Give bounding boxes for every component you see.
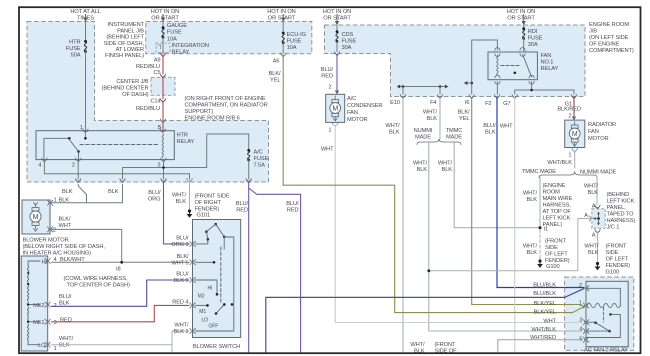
svg-text:BLU/BLK: BLU/BLK xyxy=(533,283,556,289)
svg-text:HI: HI xyxy=(208,286,213,292)
svg-text:WHT/BLK: WHT/BLK xyxy=(531,327,556,333)
svg-text:MADE: MADE xyxy=(446,135,462,141)
svg-text:OF RIGHT: OF RIGHT xyxy=(195,200,222,206)
pin 1 HTR relay xyxy=(80,125,88,133)
wire WHT/BLK E10 down to bottom xyxy=(385,98,403,352)
wire BLK/WHT blower motor pin 2 to I8 xyxy=(52,229,122,262)
fan no.1 relay box xyxy=(488,52,537,80)
svg-text:RED: RED xyxy=(236,208,248,214)
svg-text:BLK: BLK xyxy=(108,189,119,195)
wire gauge fuse through integration relay xyxy=(162,37,164,54)
pin 2 blower motor xyxy=(48,217,72,234)
svg-text:(BEHIND LEFT: (BEHIND LEFT xyxy=(106,35,144,41)
fuse A/C FUSE 7.5A xyxy=(247,149,268,169)
node I1 xyxy=(539,226,549,232)
svg-text:PANEL J/B: PANEL J/B xyxy=(117,28,144,34)
label NUMMI MADE / TMMC MADE (F4 split) xyxy=(414,128,463,141)
label CENTER J/B xyxy=(102,79,149,98)
svg-text:SUPPORT): SUPPORT) xyxy=(185,109,214,115)
radiator fan motor box xyxy=(565,120,585,147)
label J/C 1 xyxy=(607,192,636,231)
svg-text:RDI: RDI xyxy=(528,29,538,35)
wire WHT/RED to AC fan 2 relay pin 5 xyxy=(498,340,582,352)
wire CDS fuse to connector xyxy=(336,41,338,51)
svg-text:RED/BLU: RED/BLU xyxy=(136,106,160,112)
svg-text:PANEL,: PANEL, xyxy=(607,205,627,211)
pin 3 AC fan 2 relay xyxy=(579,318,588,325)
pin E10 connector xyxy=(390,95,405,106)
wire BLU/BLK resistor ME2 to switch pin 6 xyxy=(52,280,190,306)
wire WHT/BLK J/C 1 left to NUMMI branch junction xyxy=(429,219,590,271)
svg-text:SIDE: SIDE xyxy=(606,250,619,256)
pin 4 blower switch xyxy=(172,300,195,308)
wire RED/BLU C14 to R/B 6 xyxy=(136,102,163,120)
svg-text:(ENGINE: (ENGINE xyxy=(543,183,566,189)
label BLU/BLK wires at relay xyxy=(533,283,556,298)
svg-text:2: 2 xyxy=(568,114,571,120)
wire WHT/BLK TMMC to I1 xyxy=(523,177,540,227)
pin CDS output connector xyxy=(334,52,339,56)
pin 2 blower resistor ME2 xyxy=(45,294,72,309)
pin A6 connector xyxy=(273,53,286,65)
pin 1 blower switch xyxy=(174,323,196,336)
svg-text:OR START: OR START xyxy=(151,16,179,22)
pin 1 AC fan 2 relay xyxy=(579,301,589,309)
svg-text:1: 1 xyxy=(579,301,582,307)
wire HTR relay pin 3 to connector xyxy=(163,161,165,179)
relay FAN NO.1 RELAY internals xyxy=(497,53,559,77)
svg-text:MAIN WIRE: MAIN WIRE xyxy=(543,196,573,202)
svg-text:FAN: FAN xyxy=(347,110,358,116)
svg-text:BLK: BLK xyxy=(485,130,496,136)
node HOT IN ON OR START (CDS fuse) xyxy=(323,9,352,25)
motor radiator fan M3 symbol xyxy=(569,122,580,147)
svg-text:YEL: YEL xyxy=(270,78,280,84)
svg-text:WHT/: WHT/ xyxy=(438,161,453,167)
ground G100 left xyxy=(537,239,570,271)
svg-text:(FRONT: (FRONT xyxy=(606,244,628,250)
svg-text:BLK 6: BLK 6 xyxy=(174,278,189,284)
label TMMC MADE / NUMMI MADE (radiator fan split) xyxy=(522,169,617,176)
svg-text:WHT/: WHT/ xyxy=(523,244,538,250)
motor A/C condenser fan M2 symbol xyxy=(330,96,341,121)
svg-text:M: M xyxy=(33,214,39,221)
pin fan no.1 relay bottom-left xyxy=(495,75,500,84)
svg-text:INTEGRATION: INTEGRATION xyxy=(172,43,209,49)
svg-text:COMPARTMENT): COMPARTMENT) xyxy=(589,48,634,54)
svg-text:SIDE OF DASH,: SIDE OF DASH, xyxy=(104,41,145,47)
svg-text:WHT/: WHT/ xyxy=(413,161,428,167)
pin fan no.1 relay top-left xyxy=(495,48,500,57)
svg-text:TOP CENTER OF DASH): TOP CENTER OF DASH) xyxy=(67,283,131,289)
wire WHT/BLK resistor LO to bottom xyxy=(52,331,173,352)
svg-text:3: 3 xyxy=(54,320,57,326)
wire BLU/RED branch right xyxy=(249,188,301,352)
svg-text:A9: A9 xyxy=(154,58,161,64)
svg-text:30A: 30A xyxy=(342,45,352,51)
svg-text:BLK/: BLK/ xyxy=(59,217,71,223)
label A/C CONDENSER FAN MOTOR xyxy=(347,96,382,123)
svg-text:ROOM: ROOM xyxy=(543,190,561,196)
wire ECU-IG fuse feed xyxy=(282,22,284,33)
svg-text:RELAY: RELAY xyxy=(177,139,195,145)
wire BLK/RED G1 to radiator fan xyxy=(557,98,581,120)
svg-text:G7: G7 xyxy=(503,101,510,107)
svg-text:(BELOW RIGHT SIDE OF DASH,: (BELOW RIGHT SIDE OF DASH, xyxy=(23,244,106,250)
svg-text:WHT: WHT xyxy=(321,147,334,153)
brace radiator fan harness split xyxy=(539,172,597,178)
svg-text:BLU/: BLU/ xyxy=(59,294,72,300)
HTR relay box xyxy=(36,131,174,160)
integration relay pin mark xyxy=(158,45,161,49)
svg-text:BLK/: BLK/ xyxy=(177,254,189,260)
svg-text:SIDE OF: SIDE OF xyxy=(435,349,458,355)
svg-text:COMPARTMENT, ON RADIATOR: COMPARTMENT, ON RADIATOR xyxy=(185,103,268,109)
svg-text:HOT IN ON: HOT IN ON xyxy=(151,9,179,15)
svg-text:BLK: BLK xyxy=(417,167,428,173)
svg-text:10A: 10A xyxy=(167,37,177,43)
svg-text:10A: 10A xyxy=(287,45,297,51)
junction dot relay to G7/G1 xyxy=(530,89,533,92)
svg-text:BLU/: BLU/ xyxy=(176,272,189,278)
svg-text:RADIATOR: RADIATOR xyxy=(588,122,616,128)
pin BLU/RED connector xyxy=(236,179,252,214)
wire WHT/BLK J/C 1 to ground right xyxy=(584,233,599,262)
AC fan 2 relay outer box (dashed, blue) xyxy=(565,277,634,350)
wire BLK connectors to blower motor pin 1 xyxy=(52,185,123,203)
wire BLK/YEL A6 route to AC fan 2 relay pin 1 xyxy=(283,185,584,312)
wire RED/BLU A9 to C5 xyxy=(136,57,163,75)
pin 1 blower motor xyxy=(48,198,70,206)
svg-text:ORG: ORG xyxy=(148,197,161,203)
svg-text:ME2: ME2 xyxy=(33,303,44,309)
node HOT IN ON OR START (gauge fuse) xyxy=(151,9,180,22)
motor blower M1 symbol xyxy=(30,203,41,232)
wire WHT/BLK TMMC branch to I1 xyxy=(438,143,540,228)
svg-text:TMMC: TMMC xyxy=(446,128,463,134)
svg-text:50A: 50A xyxy=(71,53,81,59)
wire BLU/RED to bottom xyxy=(248,182,250,352)
wire WHT/BLK I1 to ground (dashed) xyxy=(523,230,540,259)
pin 4 blower resistor HI xyxy=(45,257,85,264)
svg-text:(COWL WIRE HARNESS,: (COWL WIRE HARNESS, xyxy=(64,276,128,282)
svg-text:SIDE: SIDE xyxy=(545,245,558,251)
svg-text:J/B: J/B xyxy=(589,29,597,35)
pin 5 connector into R/B 6 xyxy=(158,119,166,131)
svg-text:LO: LO xyxy=(38,343,46,349)
pin 5 AC fan 2 relay xyxy=(579,337,588,343)
svg-text:HARNESS,: HARNESS, xyxy=(543,203,572,209)
svg-text:4: 4 xyxy=(38,163,41,169)
pin G1 connector xyxy=(565,95,577,108)
svg-text:FUSE: FUSE xyxy=(167,30,182,36)
svg-text:OF LEFT: OF LEFT xyxy=(545,252,568,258)
svg-text:WHT: WHT xyxy=(500,124,513,130)
fuse GAUGE FUSE 10A xyxy=(162,23,188,43)
svg-text:BLK: BLK xyxy=(588,190,599,196)
svg-text:2: 2 xyxy=(53,228,56,234)
svg-text:GAUGE: GAUGE xyxy=(167,23,187,29)
svg-text:YEL: YEL xyxy=(459,116,469,122)
svg-text:BLK: BLK xyxy=(527,197,538,203)
svg-text:BLU/: BLU/ xyxy=(176,236,189,242)
svg-text:7.5A: 7.5A xyxy=(254,163,266,169)
svg-text:A6: A6 xyxy=(273,59,280,65)
wire WHT/BLK to ground G101 xyxy=(189,182,191,209)
junction I6 branch arrow xyxy=(464,81,473,85)
svg-text:M: M xyxy=(332,106,338,113)
svg-text:FUSE: FUSE xyxy=(287,39,302,45)
pin G7 connector xyxy=(503,95,517,107)
brace F4 harness split xyxy=(417,139,461,145)
svg-text:J/C 1: J/C 1 xyxy=(607,225,620,231)
svg-text:BLK: BLK xyxy=(62,189,73,195)
svg-text:LEFT KICK: LEFT KICK xyxy=(543,216,571,222)
svg-text:INSTRUMENT: INSTRUMENT xyxy=(108,22,145,28)
junction dot NUMMI branch xyxy=(427,269,430,272)
svg-text:3: 3 xyxy=(579,318,582,324)
svg-text:2: 2 xyxy=(72,163,75,169)
svg-text:I6: I6 xyxy=(465,100,470,106)
svg-text:BLK/: BLK/ xyxy=(269,71,281,77)
svg-text:FUSE: FUSE xyxy=(342,39,357,45)
wire RDI fuse to fan no.1 relay xyxy=(523,39,525,53)
svg-text:TAPED TO: TAPED TO xyxy=(607,212,635,218)
svg-text:RELAY: RELAY xyxy=(172,50,190,56)
svg-text:5: 5 xyxy=(579,337,582,343)
svg-text:LEFT KICK: LEFT KICK xyxy=(607,199,635,205)
svg-text:ENGINE ROOM: ENGINE ROOM xyxy=(589,22,629,28)
svg-text:2: 2 xyxy=(328,85,331,91)
svg-text:WHT/BLK: WHT/BLK xyxy=(547,160,572,166)
svg-text:WHT: WHT xyxy=(543,318,556,324)
wire WHT G7 down to bottom xyxy=(500,98,515,352)
pin F4 connector xyxy=(430,95,443,106)
svg-text:BLK/YEL: BLK/YEL xyxy=(534,301,556,307)
svg-text:MADE: MADE xyxy=(415,135,431,141)
svg-text:FAN: FAN xyxy=(588,129,599,135)
svg-text:F2: F2 xyxy=(485,101,491,107)
svg-text:M: M xyxy=(572,131,578,138)
fuse RDI FUSE 30A xyxy=(522,27,542,48)
svg-text:FUSE: FUSE xyxy=(66,46,81,52)
svg-text:BLU/: BLU/ xyxy=(236,201,249,207)
svg-text:(FRONT: (FRONT xyxy=(435,342,457,348)
svg-text:OR START: OR START xyxy=(507,16,535,22)
wire BLU/BLK F2 to AC fan 2 relay pin 2 xyxy=(483,98,584,288)
label BLOWER MOTOR xyxy=(23,238,106,257)
label RADIATOR FAN MOTOR xyxy=(588,122,616,142)
wire RDI fuse feed xyxy=(523,25,525,29)
pin 1 condenser fan connector xyxy=(328,123,337,134)
svg-text:RED: RED xyxy=(287,208,299,214)
svg-text:F4: F4 xyxy=(430,100,436,106)
svg-text:HOT IN ON: HOT IN ON xyxy=(267,9,295,15)
svg-text:OF DASH): OF DASH) xyxy=(122,92,149,98)
svg-text:HOT IN ON: HOT IN ON xyxy=(507,9,535,15)
wire WHT/BLK NUMMI to J/C 1 xyxy=(584,177,599,205)
svg-text:RELAY: RELAY xyxy=(541,66,559,72)
wire BLU/BLK lower to AC fan 2 relay pin 2 xyxy=(266,289,584,352)
junction I8 xyxy=(116,261,123,273)
label ENGINE ROOM J/B xyxy=(589,22,634,54)
wire BLK/YEL A6 down xyxy=(269,56,284,185)
pin I6 connector xyxy=(465,95,474,106)
svg-text:(ON LEFT SIDE: (ON LEFT SIDE xyxy=(589,35,629,41)
pin C5 connector xyxy=(153,70,165,78)
svg-text:I8: I8 xyxy=(116,267,121,273)
wire HTR fuse to HTR relay pin 1 xyxy=(85,52,87,131)
blower resistor box xyxy=(21,256,48,351)
svg-text:M2: M2 xyxy=(198,294,205,300)
svg-text:AT TOP OF: AT TOP OF xyxy=(543,209,572,215)
svg-text:A/C: A/C xyxy=(254,150,263,156)
switch blower switch internals xyxy=(195,223,234,331)
svg-text:WHT/: WHT/ xyxy=(410,342,425,348)
wire BLK/YEL I6 to AC fan 2 relay pin 1 xyxy=(458,98,584,306)
svg-text:BLK: BLK xyxy=(527,250,538,256)
svg-text:BLK: BLK xyxy=(588,250,599,256)
svg-text:E10: E10 xyxy=(390,100,400,106)
svg-text:1: 1 xyxy=(80,125,83,131)
svg-text:5: 5 xyxy=(158,125,161,131)
svg-text:CENTER J/B: CENTER J/B xyxy=(116,79,148,85)
pin fan no.1 relay bottom-right xyxy=(529,75,534,84)
A/C condenser fan motor box xyxy=(326,94,345,122)
svg-text:BLOWER MOTOR: BLOWER MOTOR xyxy=(23,238,69,244)
node HOT AT ALL TIMES xyxy=(70,9,100,22)
relay AC FAN 2 RELAY internals xyxy=(587,288,621,337)
wire WHT/BLK switch pin 1 xyxy=(172,330,189,332)
blower motor box xyxy=(22,200,50,234)
svg-text:MOTOR: MOTOR xyxy=(347,117,368,123)
fuse HTR FUSE 50A xyxy=(66,40,87,59)
svg-text:C14: C14 xyxy=(150,99,160,105)
wire J/B internal bus E10-F4 xyxy=(397,85,449,95)
pin C14 connector xyxy=(150,99,165,105)
svg-text:FUSE: FUSE xyxy=(528,36,543,42)
integration relay box (dashed) xyxy=(156,43,170,52)
svg-text:WHT/: WHT/ xyxy=(385,123,400,129)
svg-text:AT LOWER: AT LOWER xyxy=(116,47,144,53)
label COWL WIRE HARNESS xyxy=(64,276,131,289)
node HOT IN ON OR START (ECU-IG) xyxy=(267,9,296,22)
svg-text:ECU-IG: ECU-IG xyxy=(287,32,306,38)
svg-text:ENGINE ROOM R/B 6: ENGINE ROOM R/B 6 xyxy=(185,116,240,122)
wire RED/BLU to HTR relay pin 5 xyxy=(162,122,164,131)
svg-text:A/C: A/C xyxy=(347,96,356,102)
svg-text:G100: G100 xyxy=(606,270,620,276)
resistor blower resistor internals xyxy=(27,259,48,349)
pin 6 blower switch xyxy=(174,272,196,285)
pin 5 blower switch xyxy=(171,254,195,267)
label BLK/YEL wires at relay xyxy=(534,301,556,316)
wire BLU/ORG to blower switch pin 3 xyxy=(164,182,190,244)
svg-text:IN HEATER A/C HOUSING): IN HEATER A/C HOUSING) xyxy=(23,251,92,257)
wire BLK/WHT resistor HI to blower switch pin 5 xyxy=(52,261,190,263)
svg-text:FUSE: FUSE xyxy=(254,156,269,162)
pin A9 connector xyxy=(154,53,166,64)
svg-text:BLK: BLK xyxy=(59,343,70,349)
fuse ECU-IG FUSE 10A xyxy=(282,32,306,51)
wire WHT/BLK F4 stub xyxy=(423,98,440,139)
svg-text:FAN: FAN xyxy=(541,53,552,59)
wire WHT/BLK NUMMI branch to AC fan 2 relay pin 4 xyxy=(413,143,582,332)
pin 1 radiator fan connector xyxy=(568,149,577,159)
svg-text:AC FAN 2 RELAY: AC FAN 2 RELAY xyxy=(584,348,628,354)
svg-text:A: A xyxy=(592,204,596,210)
svg-text:TMMC MADE: TMMC MADE xyxy=(522,169,556,175)
wire HTR fuse feed xyxy=(85,22,87,41)
wire ECU-IG fuse to A6 xyxy=(282,43,284,53)
label engine room main wire harness xyxy=(543,183,573,228)
svg-text:BLK: BLK xyxy=(442,167,453,173)
pin BLU/ORG connector xyxy=(148,179,166,203)
svg-text:BLK: BLK xyxy=(389,130,400,136)
svg-text:ORG 3: ORG 3 xyxy=(171,242,188,248)
wire relay coil feed to I6 xyxy=(472,40,498,94)
svg-text:ME1: ME1 xyxy=(33,320,44,326)
svg-text:BLK: BLK xyxy=(414,349,425,355)
svg-text:BLK/YEL: BLK/YEL xyxy=(534,310,556,316)
svg-text:2: 2 xyxy=(579,283,582,289)
engine room J/B box (dashed, blue) xyxy=(325,25,586,97)
svg-text:WHT/: WHT/ xyxy=(423,110,438,116)
engine room R/B 6 box (dashed, blue) xyxy=(27,22,269,183)
pin A J/C 1 left connector xyxy=(584,213,591,221)
svg-text:FINISH PANEL): FINISH PANEL) xyxy=(105,53,144,59)
svg-text:MOTOR: MOTOR xyxy=(588,136,609,142)
svg-text:WHT/: WHT/ xyxy=(174,323,189,329)
svg-text:(FRONT SIDE: (FRONT SIDE xyxy=(195,194,230,200)
svg-text:BLOWER SWITCH: BLOWER SWITCH xyxy=(193,344,240,350)
svg-text:BLK 1: BLK 1 xyxy=(174,329,189,335)
pin fan no.1 relay top-right xyxy=(520,48,525,57)
svg-text:OF ENGINE: OF ENGINE xyxy=(589,42,620,48)
svg-text:M1: M1 xyxy=(199,309,206,315)
wire BLU/RED to condenser fan xyxy=(321,55,337,91)
svg-text:C5: C5 xyxy=(153,70,160,76)
svg-text:WHT/: WHT/ xyxy=(59,336,74,342)
svg-text:G101: G101 xyxy=(197,213,211,219)
label INTEGRATION RELAY U1 xyxy=(172,43,209,56)
junction J/C 1 internal node xyxy=(593,212,600,225)
wire HTR relay pin 2 to connector xyxy=(77,161,79,179)
svg-text:WHT/: WHT/ xyxy=(172,193,187,199)
pin 5 HTR relay xyxy=(158,125,165,133)
svg-text:OF LEFT: OF LEFT xyxy=(606,257,629,263)
pin A J/C 1 top connector xyxy=(592,204,600,210)
svg-text:BLK: BLK xyxy=(59,300,70,306)
wire relay contact to G7 and G1 xyxy=(515,82,574,94)
svg-text:I1: I1 xyxy=(544,227,549,233)
svg-text:BLK: BLK xyxy=(176,199,187,205)
svg-text:WHT/RED: WHT/RED xyxy=(530,335,556,341)
svg-text:LO: LO xyxy=(202,318,209,324)
svg-text:FENDER): FENDER) xyxy=(606,263,631,269)
wire A/C fuse feed branch xyxy=(123,134,249,179)
wire RED/BLU through center J/B xyxy=(162,77,164,99)
wire HTR relay pin 4 to G101 connector xyxy=(44,161,189,179)
svg-text:1: 1 xyxy=(328,128,331,134)
pin WHT/BLK G101 connector xyxy=(172,179,192,205)
svg-text:1: 1 xyxy=(54,346,57,352)
svg-text:A: A xyxy=(592,233,596,239)
svg-text:WHT 5: WHT 5 xyxy=(171,261,188,267)
pin 2 arrow into radiator fan motor xyxy=(572,117,576,121)
svg-text:WHT/: WHT/ xyxy=(523,191,538,197)
wire relay contact to F2 xyxy=(496,82,498,94)
